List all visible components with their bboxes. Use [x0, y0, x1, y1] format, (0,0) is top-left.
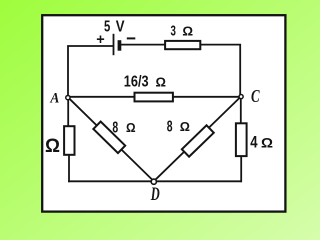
- wire: node A to node C (middle branch): [71, 96, 239, 98]
- svg-text:8: 8: [112, 119, 118, 136]
- svg-text:Ω: Ω: [182, 23, 193, 38]
- svg-text:A: A: [50, 89, 60, 106]
- wire: node A down to left resistor: [67, 100, 69, 127]
- svg-text:Ω: Ω: [45, 135, 60, 157]
- svg-text:Ω: Ω: [156, 75, 167, 90]
- wire: diagonal node A to node D: [70, 99, 152, 179]
- battery B1 positive plate: [113, 34, 115, 55]
- svg-text:C: C: [251, 86, 260, 106]
- svg-text:5: 5: [104, 18, 110, 35]
- svg-text:Ω: Ω: [126, 120, 136, 135]
- node C junction: [239, 95, 243, 99]
- resistor 16/3 ohm body: [135, 93, 173, 102]
- resistor 3 ohm body: [165, 41, 200, 49]
- wire: 4 ohm resistor down to bottom wire: [240, 156, 242, 181]
- svg-text:4: 4: [250, 132, 258, 151]
- white panel frame: [42, 15, 285, 211]
- battery B1 negative plate: [118, 40, 122, 51]
- node A junction: [66, 95, 70, 99]
- resistor 8 ohm left body: [93, 122, 125, 153]
- wire: left resistor down to bottom wire: [68, 155, 70, 181]
- resistor left branch body: [64, 126, 74, 155]
- wire: node C down to 4 ohm resistor: [240, 99, 242, 124]
- wire: node A up and across to battery + terminal: [68, 46, 113, 95]
- resistor 4 ohm body: [236, 123, 247, 156]
- svg-text:D: D: [150, 184, 160, 205]
- svg-text:V: V: [116, 18, 125, 35]
- battery polarity -: [127, 37, 136, 39]
- wire: bottom rail through node D: [69, 180, 241, 182]
- wire: battery - terminal across top and down to node C: [121, 45, 240, 94]
- svg-text:16/3: 16/3: [124, 74, 149, 91]
- svg-text:3: 3: [171, 23, 176, 39]
- resistor 8 ohm right body: [182, 125, 214, 156]
- wire: diagonal node C to node D: [156, 99, 239, 180]
- svg-text:Ω: Ω: [261, 135, 273, 150]
- node D junction: [151, 179, 156, 184]
- svg-text:Ω: Ω: [180, 119, 190, 134]
- svg-text:8: 8: [167, 118, 173, 135]
